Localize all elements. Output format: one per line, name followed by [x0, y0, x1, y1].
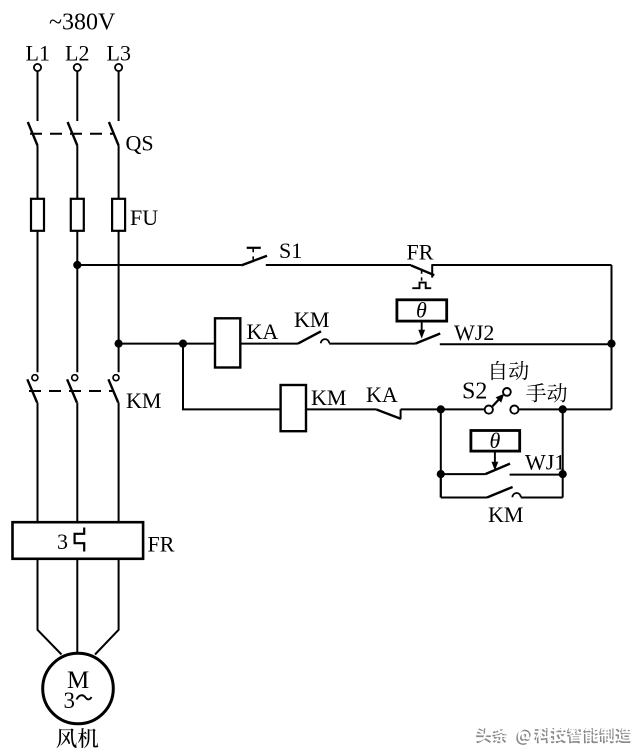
wire KM aux to WJ2 contact	[329, 343, 415, 345]
temperature relay WJ2 contact	[415, 334, 440, 344]
wire L3 tap to node A	[119, 343, 183, 345]
svg-text:~380V: ~380V	[49, 10, 116, 36]
svg-text:QS: QS	[126, 131, 154, 156]
contactor coil KM	[281, 385, 306, 431]
temperature relay WJ1 sensor box	[471, 431, 520, 452]
wire KM aux contact to bottom right	[521, 497, 563, 499]
disconnect QS pole 2 blade	[68, 122, 78, 146]
motor M	[43, 653, 114, 724]
svg-text:S2: S2	[462, 379, 487, 405]
wire L1 FR to motor	[38, 559, 62, 655]
wire S2 to node C	[519, 408, 563, 410]
wire L3 QS to fuse	[118, 146, 120, 199]
wire L3 KM to FR box	[118, 403, 120, 523]
svg-text:KM: KM	[488, 502, 523, 527]
junction node on L2 (control tap)	[73, 261, 81, 269]
wire L3 terminal to QS	[118, 71, 120, 121]
junction node on L3 (control tap)	[115, 340, 123, 348]
svg-text:WJ2: WJ2	[454, 320, 494, 345]
wire L2 fuse to KM	[76, 231, 78, 372]
wire L1 fuse to KM	[37, 231, 39, 372]
wire node B down	[440, 409, 442, 497]
svg-text:L1: L1	[26, 41, 50, 66]
disconnect QS pole 3 blade	[109, 122, 119, 146]
wire L1 QS to fuse	[37, 146, 39, 199]
label 风机 (fan)	[57, 728, 77, 748]
thermal relay FR NC contact	[411, 265, 434, 275]
wire L3 FR to motor	[95, 559, 119, 655]
node E junction	[559, 470, 567, 478]
svg-text:FR: FR	[407, 240, 434, 265]
svg-text:L3: L3	[107, 41, 131, 66]
switch S1	[247, 247, 261, 249]
svg-text:L2: L2	[65, 41, 89, 66]
wire L1 KM to FR box	[37, 403, 39, 523]
fuse FU pole 2	[71, 199, 84, 231]
svg-text:3: 3	[57, 529, 68, 554]
wire bottom left to KM aux contact	[441, 497, 487, 499]
junction right rail / WJ2 row	[607, 340, 615, 348]
wire node A to KA coil	[183, 343, 215, 345]
node C junction	[559, 405, 567, 413]
label 手动 (manual)	[526, 383, 546, 402]
svg-text:KM: KM	[126, 388, 161, 413]
svg-text:WJ1: WJ1	[525, 450, 565, 475]
node D junction	[437, 470, 445, 478]
svg-text:θ: θ	[490, 428, 501, 453]
wire KM coil to KA contact	[306, 408, 376, 410]
wire L2 QS to fuse	[76, 146, 78, 199]
relay coil KA	[215, 318, 240, 367]
FR heater element symbol	[75, 528, 85, 552]
svg-text:KM: KM	[294, 307, 329, 332]
WJ2 actuation arrow	[421, 321, 423, 331]
KM main interlock dashed link	[29, 390, 114, 392]
fuse FU pole 3	[112, 199, 125, 231]
wire S1 to FR contact	[266, 264, 411, 266]
wire L2 tap to S1	[77, 264, 241, 266]
contactor KM main contact pole 3	[113, 375, 119, 381]
right rail wire (vertical)	[611, 265, 613, 409]
svg-text:FU: FU	[130, 205, 158, 230]
wire KA contact to node B	[401, 408, 441, 410]
contactor KM main contact pole 1	[32, 375, 38, 381]
thermal relay FR heater box	[13, 522, 144, 559]
node B junction	[437, 405, 445, 413]
relay KA NO contact	[376, 409, 401, 419]
wire L2 FR to motor	[76, 559, 78, 653]
wire node D down to KM aux	[440, 474, 442, 497]
wire node B to S2	[441, 408, 485, 410]
temperature relay WJ1 contact	[485, 464, 510, 475]
svg-text:θ: θ	[416, 298, 427, 323]
svg-text:KA: KA	[366, 382, 398, 407]
wire node C to right rail	[563, 408, 612, 410]
WJ1 actuation arrow	[494, 451, 496, 462]
wire L3 fuse to KM	[118, 231, 120, 372]
svg-text:FR: FR	[148, 532, 175, 557]
contactor KM auxiliary NO contact (bottom)	[487, 487, 513, 498]
svg-text:S1: S1	[279, 238, 302, 263]
wire WJ2 contact to right rail	[440, 343, 612, 345]
wire node D to WJ1 contact	[441, 473, 486, 475]
watermark 头条@科技智能制造	[476, 728, 491, 743]
wire KA coil to KM aux contact	[240, 343, 298, 345]
label 自动 (auto)	[491, 361, 505, 380]
contactor KM main contact pole 2	[72, 375, 78, 381]
svg-text:KA: KA	[247, 319, 279, 344]
svg-text:KM: KM	[311, 385, 346, 410]
temperature relay WJ2 sensor box	[397, 300, 447, 321]
wire node C down	[562, 409, 564, 497]
wire L1 terminal to QS	[37, 71, 39, 121]
wire WJ1 contact to node E	[510, 474, 563, 476]
selector switch S2	[485, 406, 493, 414]
node A junction	[179, 340, 187, 348]
wire L2 terminal to QS	[76, 71, 78, 121]
disconnect QS pole 1 blade	[28, 122, 38, 146]
QS interlock dashed link	[30, 133, 114, 135]
svg-text:3: 3	[64, 688, 76, 713]
fuse FU pole 1	[31, 199, 44, 231]
contactor KM auxiliary NO contact (row 2)	[298, 331, 321, 343]
wire L2 KM to FR box	[76, 403, 78, 523]
wire FR contact to right rail	[432, 264, 611, 266]
wire node A down to row 3	[183, 344, 281, 410]
